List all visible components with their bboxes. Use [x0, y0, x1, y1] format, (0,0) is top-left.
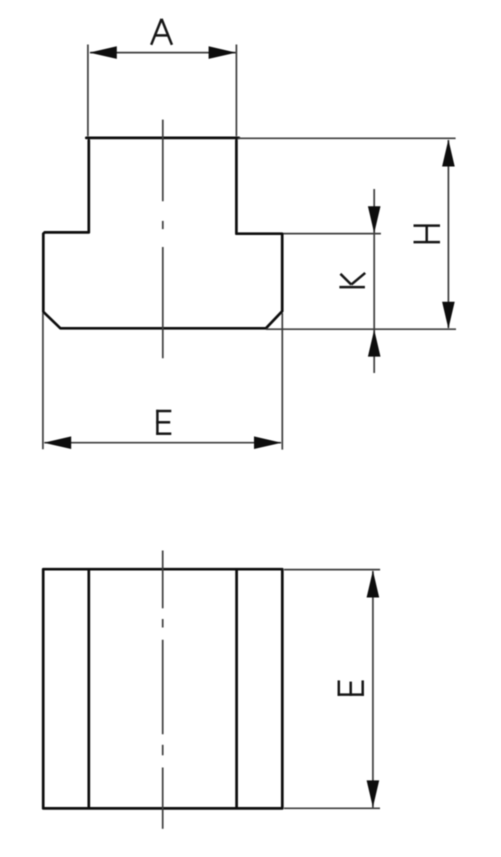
dimension E (front) line — [44, 442, 281, 444]
dimension K line upper tail — [373, 189, 375, 234]
centerline (front view) — [162, 120, 164, 359]
dimension E (side) line — [372, 571, 374, 808]
side view inner edge left — [87, 569, 90, 808]
centerline (side view) — [162, 551, 164, 829]
dimension K line lower tail — [373, 329, 375, 373]
dimension K arrowhead upper (points down to shoulder) — [368, 206, 381, 233]
dimension H / K extension line bottom — [266, 328, 456, 330]
dimension E (side) extension line top — [284, 569, 380, 571]
dimension A extension line right — [235, 45, 237, 137]
dimension E (front) extension line left — [42, 313, 44, 449]
dimension K arrowhead lower (points up to bottom face) — [368, 330, 381, 357]
label E (side, rotated) — [338, 680, 364, 695]
dimension H arrowhead bottom — [442, 302, 455, 329]
dimension A extension line left — [87, 45, 89, 137]
T-nut profile outline (front view) — [43, 138, 282, 328]
dimension A arrowhead right — [209, 46, 237, 59]
label A — [151, 19, 172, 45]
dimension H extension line top — [238, 137, 456, 139]
dimension E (side) arrowhead top — [367, 571, 380, 598]
dimension A line — [90, 52, 236, 54]
dimension E (front) arrowhead right — [254, 436, 282, 449]
dimension K extension line (shoulder) — [284, 233, 381, 235]
dimension E (front) extension line right — [281, 313, 283, 450]
label H (rotated) — [414, 226, 441, 243]
label K (rotated) — [339, 273, 365, 287]
dimension H arrowhead top — [442, 140, 455, 167]
dimension K line middle — [373, 234, 375, 330]
side view inner edge right — [235, 569, 238, 808]
dimension E (front) arrowhead left — [44, 436, 71, 449]
side view rectangle — [43, 569, 282, 808]
dimension H line — [447, 140, 449, 328]
dimension E (side) arrowhead bottom — [367, 780, 380, 807]
dimension A arrowhead left — [89, 46, 117, 59]
label E (front) — [156, 410, 171, 435]
dimension E (side) extension line bottom — [284, 807, 380, 809]
